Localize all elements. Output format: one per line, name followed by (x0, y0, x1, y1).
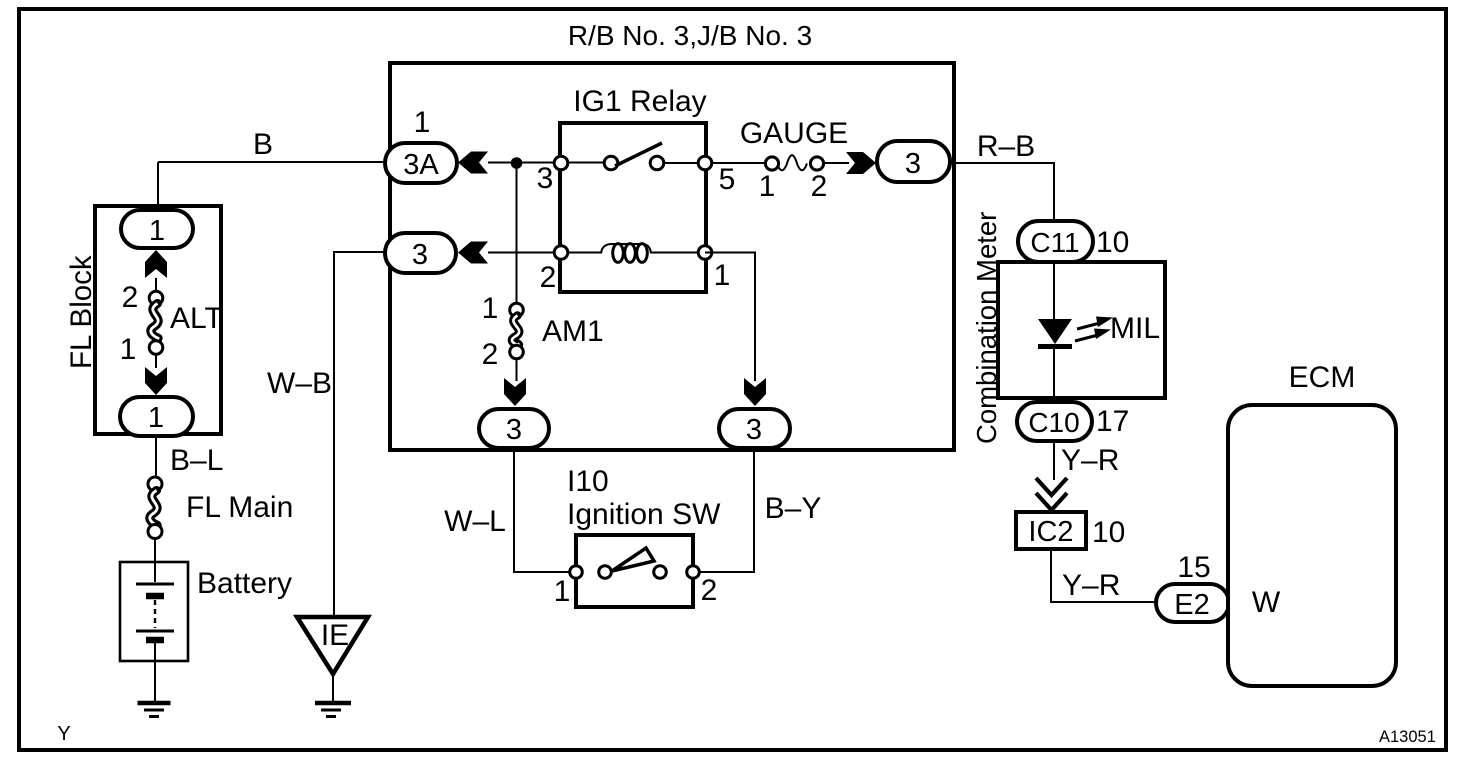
switch I10 Ignition SW (554, 465, 721, 608)
svg-text:3: 3 (905, 148, 921, 180)
svg-text:Ignition SW: Ignition SW (567, 498, 721, 531)
arrow into connector 3 left (458, 242, 488, 264)
fusible link FL Main (148, 477, 293, 539)
svg-text:Combination Meter: Combination Meter (971, 212, 1002, 444)
svg-text:MIL: MIL (1110, 312, 1160, 345)
svg-text:1: 1 (554, 575, 571, 608)
svg-text:2: 2 (540, 261, 557, 294)
svg-text:Y–R: Y–R (1061, 444, 1119, 477)
svg-text:3: 3 (412, 239, 428, 271)
wire battery to ground (154, 643, 156, 701)
wire from 3A to relay pin 3 with junction (488, 162, 612, 164)
svg-text:FL Block: FL Block (65, 255, 98, 369)
fusible link AM1 (pins 1,2) (482, 292, 604, 371)
ground (battery) (138, 703, 171, 717)
svg-text:C11: C11 (1030, 227, 1079, 258)
fusible link ALT (pins 2,1) (120, 281, 223, 366)
connector 3 (bottom right, B-Y) (719, 409, 790, 448)
svg-text:FL Main: FL Main (186, 491, 293, 524)
combination meter box (971, 212, 1165, 444)
svg-text:IE: IE (321, 619, 349, 652)
svg-text:Y: Y (57, 723, 70, 745)
svg-text:ECM: ECM (1289, 361, 1356, 394)
connector E2 pin 15 (1156, 551, 1229, 622)
wire from relay pin 1 down to bottom-right connector (705, 253, 755, 382)
connector 3 (right, to R-B) (877, 141, 950, 182)
LED lamp MIL (1038, 312, 1160, 347)
wire AM1 drop from junction (516, 163, 518, 303)
svg-text:1: 1 (482, 292, 499, 325)
connector C10 pin 17 (1017, 402, 1129, 441)
svg-text:R–B: R–B (977, 130, 1035, 163)
svg-text:W–B: W–B (267, 367, 332, 400)
svg-text:I10: I10 (567, 465, 609, 498)
FL Block box (65, 206, 221, 434)
wire B horizontal from FL Block to connector 3A (158, 128, 385, 211)
svg-text:1: 1 (120, 333, 137, 366)
connector 1 (FL block top) (121, 210, 193, 248)
relay coil pins 2 and 1 (488, 244, 730, 294)
svg-text:1: 1 (714, 259, 731, 292)
svg-text:3: 3 (537, 162, 554, 195)
svg-text:R/B No. 3,J/B No. 3: R/B No. 3,J/B No. 3 (568, 20, 812, 51)
svg-text:GAUGE: GAUGE (740, 117, 848, 150)
splice double chevron (1036, 478, 1067, 510)
fuse GAUGE (pins 1,2) (740, 117, 849, 203)
svg-text:10: 10 (1096, 226, 1129, 259)
wire to ALT link (155, 278, 157, 292)
svg-text:5: 5 (719, 163, 736, 196)
svg-text:17: 17 (1096, 405, 1129, 438)
svg-text:3A: 3A (403, 149, 439, 181)
svg-text:B–Y: B–Y (765, 492, 822, 525)
arrow into bottom-left connector 3 (504, 378, 526, 406)
svg-text:10: 10 (1092, 516, 1125, 549)
svg-text:2: 2 (701, 574, 718, 607)
relay switch contacts pins 3 and 5 (537, 143, 773, 196)
connector C11 pin 10 (1018, 221, 1129, 262)
svg-text:Battery: Battery (197, 567, 292, 600)
wire and down arrow to connector 1 bottom (155, 354, 157, 368)
svg-text:B: B (253, 128, 273, 161)
battery (120, 562, 292, 661)
arrow into bottom-right connector 3 (744, 378, 766, 406)
svg-text:3: 3 (746, 414, 762, 446)
svg-text:2: 2 (811, 170, 828, 203)
svg-text:3: 3 (506, 414, 522, 446)
svg-text:IG1 Relay: IG1 Relay (573, 85, 706, 118)
arrow into 3A (458, 152, 488, 174)
svg-text:W: W (1252, 586, 1281, 619)
connector 3 (left, W-B output) (385, 233, 456, 273)
svg-text:E2: E2 (1174, 589, 1209, 621)
wire Y-R from C10 (1054, 441, 1119, 480)
wire AM1 to connector (516, 359, 518, 381)
svg-text:AM1: AM1 (542, 315, 604, 348)
svg-text:1: 1 (149, 215, 165, 247)
wire to battery (154, 538, 156, 582)
svg-text:2: 2 (122, 281, 139, 314)
wire B-L (156, 436, 223, 477)
svg-text:1: 1 (759, 170, 776, 203)
svg-text:1: 1 (414, 106, 431, 139)
svg-text:W–L: W–L (444, 505, 506, 538)
ground point IE (297, 617, 368, 674)
svg-text:15: 15 (1177, 551, 1210, 584)
svg-text:A13051: A13051 (1379, 728, 1436, 746)
junction block box R/B No. 3, J/B No. 3 (390, 20, 954, 450)
wire IE to ground (332, 676, 334, 701)
junction node dot (511, 157, 523, 169)
wire inside meter (1053, 262, 1055, 402)
ECM box with terminal W (1228, 361, 1396, 686)
wire R-B from connector 3 to C11 (950, 130, 1054, 221)
svg-text:C10: C10 (1028, 407, 1079, 438)
junction connector IC2 pin 10 (1016, 512, 1125, 549)
svg-text:2: 2 (482, 338, 499, 371)
wire W-B from connector 3 to IE (267, 252, 385, 617)
svg-text:1: 1 (148, 402, 164, 434)
svg-text:B–L: B–L (170, 444, 223, 477)
arrow into connector 3 right (846, 152, 876, 174)
wire B-Y (693, 448, 821, 572)
relay U: IG1 Relay box (560, 85, 707, 292)
ground (IE) (315, 703, 351, 717)
arrow up into connector 1 (145, 250, 167, 278)
connector 1 (FL block bottom) (120, 397, 193, 436)
wire Y-R from IC2 to E2 (1051, 549, 1156, 602)
connector 3 (bottom left, W-L) (479, 409, 549, 448)
svg-text:Y–R: Y–R (1062, 569, 1120, 602)
wire W-L (444, 448, 577, 572)
svg-text:IC2: IC2 (1028, 516, 1073, 548)
svg-text:ALT: ALT (170, 302, 223, 335)
connector 3A (pin 1) (385, 106, 457, 183)
